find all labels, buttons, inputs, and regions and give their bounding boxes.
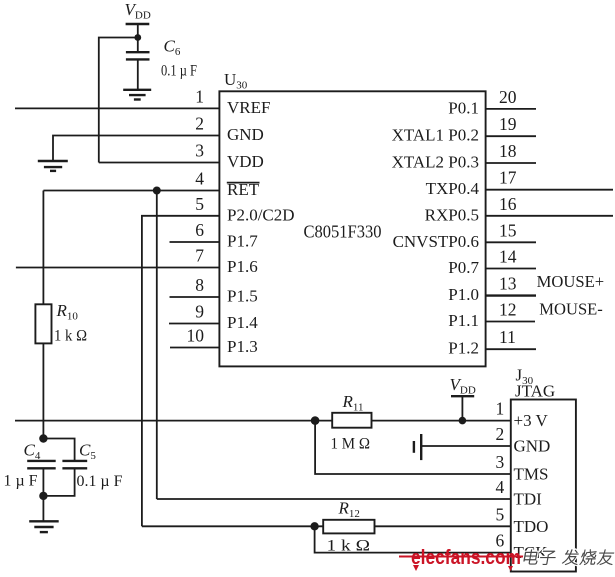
svg-text:R12: R12: [338, 499, 360, 521]
svg-text:P0.1: P0.1: [448, 98, 479, 117]
svg-text:GND: GND: [514, 437, 551, 456]
svg-text:5: 5: [195, 194, 204, 214]
svg-text:3: 3: [195, 141, 204, 161]
wire pin1 VREF: [15, 107, 219, 109]
wire pin17 TX: [486, 189, 613, 191]
wire RET to TDI: [156, 191, 158, 500]
watermark elecfans.com: [399, 547, 531, 571]
wire TDI: [157, 498, 511, 500]
wire R11 junction to TMS: [315, 421, 511, 474]
svg-text:1 k Ω: 1 k Ω: [54, 328, 87, 345]
svg-text:VDD: VDD: [125, 0, 151, 22]
svg-text:RXP0.5: RXP0.5: [425, 205, 479, 224]
svg-text:1: 1: [195, 86, 204, 106]
wire C5 bottom: [43, 468, 74, 496]
svg-text:0.1 µ F: 0.1 µ F: [161, 63, 197, 80]
svg-text:R10: R10: [56, 301, 79, 323]
svg-text:+3 V: +3 V: [514, 411, 549, 430]
ground (C4 C5): [29, 521, 59, 532]
wire pin10 P1.3: [170, 347, 219, 349]
wire TCK: [315, 526, 511, 552]
node C4 top junction: [39, 434, 47, 442]
svg-text:7: 7: [195, 246, 204, 266]
svg-text:4: 4: [496, 477, 505, 497]
node R12 left junction: [310, 522, 318, 530]
wire pin7 P1.6: [16, 267, 220, 269]
pin label RET with overline: [227, 180, 260, 199]
svg-text:TDI: TDI: [514, 490, 543, 509]
svg-text:P0.7: P0.7: [448, 258, 479, 277]
node R11 left junction: [311, 416, 320, 425]
svg-text:R11: R11: [342, 392, 364, 414]
wire: [137, 59, 139, 89]
wire GND pin2 JTAG: [421, 445, 511, 447]
resistor R12: [323, 499, 374, 555]
wire pin13 P1.0: [486, 294, 536, 296]
capacitor C6: [126, 37, 197, 80]
node VDD JTAG junction: [459, 417, 467, 425]
svg-text:MOUSE+: MOUSE+: [537, 272, 605, 291]
node RET junction: [153, 187, 161, 195]
wire pin4 RET: [43, 190, 219, 192]
svg-text:VDD: VDD: [227, 152, 264, 171]
svg-text:17: 17: [499, 168, 517, 188]
power VDD (JTAG): [450, 375, 476, 397]
wire pin3 VDD: [99, 162, 220, 164]
watermark chinese: [523, 550, 615, 565]
svg-text:6: 6: [195, 220, 204, 240]
svg-text:P1.6: P1.6: [227, 257, 258, 276]
svg-text:13: 13: [499, 274, 517, 294]
connector J30 JTAG: [511, 400, 576, 572]
svg-text:P1.0: P1.0: [448, 285, 479, 304]
svg-text:10: 10: [187, 326, 205, 346]
svg-text:JTAG: JTAG: [515, 382, 555, 401]
ground (pin2): [38, 161, 68, 171]
node C4 bottom junction: [39, 492, 47, 500]
svg-text:U30: U30: [224, 70, 248, 92]
svg-text:P1.3: P1.3: [227, 337, 258, 356]
wire pin20 P0.1: [486, 108, 536, 110]
svg-text:14: 14: [499, 247, 517, 267]
svg-text:19: 19: [499, 114, 517, 134]
wire: [137, 24, 139, 52]
wire pin11 P1.2: [486, 348, 536, 350]
svg-text:elecfans.com: elecfans.com: [411, 547, 521, 569]
svg-text:11: 11: [499, 327, 516, 347]
power VDD (top): [125, 0, 151, 24]
svg-text:P1.7: P1.7: [227, 232, 258, 251]
wire RET left branch down through R10: [42, 191, 44, 439]
capacitor C5: [62, 441, 122, 491]
svg-text:CNVSTP0.6: CNVSTP0.6: [393, 232, 479, 251]
wire long net (+3V rail): [15, 420, 511, 422]
wire pin8 P1.5: [170, 296, 220, 298]
wire pin9 P1.4: [169, 323, 219, 325]
wire VDD to pin1: [461, 396, 463, 420]
svg-text:18: 18: [499, 141, 517, 161]
wire TDO: [142, 525, 511, 527]
svg-text:TMS: TMS: [514, 465, 549, 484]
svg-text:P1.4: P1.4: [227, 313, 258, 332]
svg-text:4: 4: [195, 169, 204, 189]
svg-text:P1.5: P1.5: [227, 287, 258, 306]
wire to C5 top: [43, 439, 74, 461]
node VDD junction: [134, 34, 141, 41]
svg-text:VREF: VREF: [227, 98, 270, 117]
svg-text:TXP0.4: TXP0.4: [426, 179, 480, 198]
svg-text:3: 3: [496, 452, 505, 472]
svg-text:P2.0/C2D: P2.0/C2D: [227, 205, 295, 224]
wire pin15 CNVST: [486, 241, 536, 243]
wire pin2 GND: [53, 136, 219, 162]
wire pin16 RX: [486, 215, 613, 217]
resistor R10: [35, 301, 87, 345]
svg-text:15: 15: [499, 220, 517, 240]
svg-text:VDD: VDD: [450, 375, 476, 397]
svg-text:MOUSE-: MOUSE-: [539, 300, 603, 319]
ground (JTAG GND pin): [414, 434, 421, 460]
svg-text:XTAL2 P0.3: XTAL2 P0.3: [392, 153, 479, 172]
svg-text:P1.1: P1.1: [448, 311, 479, 330]
svg-text:P1.2: P1.2: [448, 339, 479, 358]
svg-text:5: 5: [496, 504, 505, 524]
svg-text:C4: C4: [24, 441, 41, 463]
svg-text:XTAL1 P0.2: XTAL1 P0.2: [392, 126, 479, 145]
wire pin6 P1.7: [170, 241, 220, 243]
svg-text:20: 20: [499, 87, 517, 107]
ground (C6): [123, 90, 151, 100]
svg-text:TDO: TDO: [514, 517, 549, 536]
svg-text:8: 8: [195, 275, 204, 295]
resistor R11: [331, 392, 372, 453]
svg-text:RET: RET: [227, 180, 260, 199]
capacitor C4: [4, 441, 56, 490]
svg-text:C8051F330: C8051F330: [304, 222, 382, 242]
IC U30 C8051F330: [219, 91, 485, 366]
wire pin18 XTAL2: [486, 162, 536, 164]
wire pin19 XTAL1: [486, 135, 536, 137]
wire pin12 P1.1: [486, 321, 535, 323]
svg-text:C6: C6: [164, 37, 181, 59]
svg-text:1 M Ω: 1 M Ω: [331, 436, 371, 453]
wire C4 bottom: [42, 468, 44, 521]
wire pin5 P2.0/C2D: [142, 216, 220, 527]
svg-text:1: 1: [496, 399, 505, 419]
svg-text:12: 12: [499, 300, 517, 320]
svg-text:16: 16: [499, 194, 517, 214]
svg-text:0.1 µ F: 0.1 µ F: [77, 473, 123, 490]
svg-text:9: 9: [195, 302, 204, 322]
svg-text:2: 2: [496, 424, 505, 444]
svg-text:2: 2: [195, 114, 204, 134]
wire: [99, 38, 138, 163]
wire pin14 P0.7: [486, 268, 536, 270]
svg-text:GND: GND: [227, 125, 264, 144]
svg-text:C5: C5: [79, 441, 96, 463]
svg-text:1 µ F: 1 µ F: [4, 473, 38, 490]
